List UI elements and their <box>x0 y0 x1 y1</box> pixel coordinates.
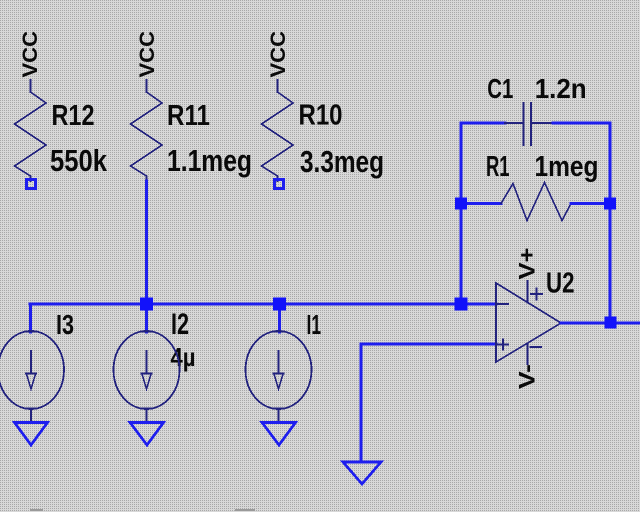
wire R1 left <box>461 202 501 205</box>
wire R11 down to bus <box>145 181 148 304</box>
svg-text:I3: I3 <box>56 309 74 340</box>
ground arrow I2 <box>130 423 164 446</box>
smudge bottom mid <box>235 509 255 511</box>
wire I3 bottom stub <box>30 409 32 422</box>
op-amp plus input mark <box>498 340 508 350</box>
op-amp U2 <box>496 283 561 362</box>
current source I1 <box>246 331 312 409</box>
ground arrow I1 <box>262 423 296 446</box>
junction bus I2 <box>140 298 153 311</box>
op-amp supply plus mark <box>531 289 542 300</box>
svg-text:R1: R1 <box>486 151 510 183</box>
current source I2 <box>114 331 180 409</box>
wire cap right <box>553 122 610 125</box>
wire cap left <box>461 122 505 125</box>
wire bus horizontal <box>30 303 496 306</box>
junction R1 right <box>604 198 616 210</box>
svg-text:3.3meg: 3.3meg <box>300 144 384 179</box>
capacitor C1 <box>505 103 553 145</box>
svg-text:4µ: 4µ <box>171 342 196 372</box>
svg-text:R12: R12 <box>52 100 95 132</box>
wire R1 right <box>571 202 610 205</box>
svg-text:550k: 550k <box>50 143 108 178</box>
pad R12 bottom <box>27 180 36 189</box>
svg-text:U2: U2 <box>546 268 575 300</box>
wire VCC2 to R11 <box>146 80 148 92</box>
wire output <box>561 322 640 325</box>
svg-text:I2: I2 <box>171 308 189 341</box>
wire bus left drop to I3 <box>29 304 32 332</box>
junction bus I1 <box>273 298 286 311</box>
wire I1 bottom stub <box>278 409 280 422</box>
wire feedback left vertical <box>460 123 463 304</box>
ground arrow I3 <box>15 423 48 446</box>
svg-text:C1: C1 <box>487 73 513 104</box>
wire VCC3 to R10 <box>277 80 279 92</box>
svg-text:1.1meg: 1.1meg <box>167 143 252 178</box>
svg-text:R10: R10 <box>299 100 343 132</box>
op-amp V+ stub <box>527 281 529 303</box>
svg-text:1.2n: 1.2n <box>535 73 587 104</box>
resistor R11 <box>131 92 163 181</box>
svg-text:1meg: 1meg <box>535 151 599 183</box>
op-amp V- stub <box>527 344 529 365</box>
svg-text:I1: I1 <box>307 309 322 340</box>
wire feedback right vertical <box>609 123 612 323</box>
junction R1 left <box>455 198 467 210</box>
resistor R12 <box>15 92 47 181</box>
svg-text:VCC: VCC <box>18 31 42 78</box>
ground op-amp <box>343 462 381 484</box>
resistor R10 <box>262 92 294 181</box>
wire plus input down <box>360 344 363 462</box>
junction bus feedback <box>455 298 468 311</box>
pad R10 bottom <box>275 180 284 189</box>
op-amp supply minus mark <box>531 346 542 348</box>
smudge bottom left <box>30 509 43 511</box>
junction output <box>605 317 617 329</box>
svg-text:R11: R11 <box>167 100 210 132</box>
resistor R1 <box>501 183 571 221</box>
wire op-amp plus input <box>361 343 496 346</box>
svg-text:V-: V- <box>515 364 540 389</box>
svg-text:VCC: VCC <box>266 31 290 78</box>
wire I2 bottom stub <box>146 409 148 422</box>
wire I2 drop <box>145 304 148 332</box>
op-amp minus input mark <box>498 303 508 305</box>
current source I3 <box>0 331 64 409</box>
svg-text:VCC: VCC <box>135 31 159 78</box>
svg-text:V+: V+ <box>515 248 540 280</box>
wire I1 drop <box>278 304 281 332</box>
wire VCC1 to R12 <box>30 80 32 92</box>
